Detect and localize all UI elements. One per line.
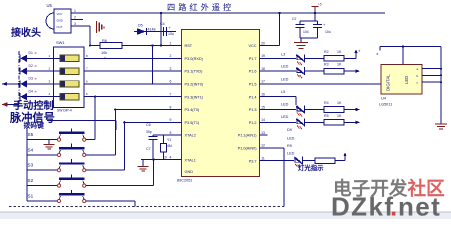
svg-text:+5: +5	[318, 3, 322, 7]
svg-text:3: 3	[74, 22, 76, 26]
svg-text:12: 12	[261, 144, 265, 148]
DIP switch SW1 body	[54, 47, 85, 108]
svg-text:P1.1(AIN1): P1.1(AIN1)	[238, 134, 258, 138]
svg-text:D2: D2	[29, 64, 33, 68]
svg-text:D3: D3	[29, 77, 33, 81]
svg-text:LED: LED	[281, 65, 289, 69]
IR receiver U5 body	[54, 9, 71, 33]
wire DIP row 1 to MCU	[84, 57, 182, 59]
IR wave marks	[96, 21, 98, 33]
svg-text:VCC: VCC	[248, 44, 256, 48]
svg-text:P1.7: P1.7	[249, 57, 257, 61]
svg-text:20: 20	[261, 41, 265, 45]
capacitor C3 10u	[317, 21, 319, 25]
wire caps bottom	[300, 37, 318, 39]
svg-text:16: 16	[261, 93, 265, 97]
svg-text:14: 14	[261, 118, 265, 122]
svg-text:18: 18	[261, 67, 265, 71]
switch S2	[27, 185, 57, 187]
svg-text:4: 4	[170, 156, 172, 160]
MCU left pin 9 P3.5(T1)	[174, 121, 182, 123]
wire cap feed	[314, 13, 316, 21]
switch S4	[27, 154, 57, 156]
receiver pin 2 wire	[71, 19, 83, 21]
svg-text:LED: LED	[287, 152, 295, 156]
svg-text:R2: R2	[324, 50, 329, 54]
power +5V symbol	[314, 7, 316, 14]
svg-text:17: 17	[261, 80, 265, 84]
svg-text:1: 1	[74, 9, 76, 13]
MCU right pin 16 P1.4	[260, 96, 268, 98]
svg-text:8: 8	[170, 105, 172, 109]
receiver pin 1 wire	[71, 12, 80, 14]
svg-text:P1.0(AIN0): P1.0(AIN0)	[238, 147, 258, 151]
DIP switch element 2	[60, 68, 79, 74]
wire display top pin	[402, 47, 404, 65]
svg-text:C6: C6	[146, 123, 151, 127]
display right pins	[422, 68, 441, 70]
svg-text:L3: L3	[281, 53, 285, 57]
wire INT0 branch	[152, 46, 154, 84]
LED D4	[19, 93, 21, 100]
LED D9 row	[268, 160, 295, 162]
svg-text:13: 13	[261, 131, 265, 135]
MCU left pin 3 P3.1(TXD)	[174, 70, 182, 72]
wire crystal gnd stub	[142, 160, 144, 166]
MCU left pin 8 P3.4(T0)	[174, 109, 182, 111]
svg-text:R3: R3	[324, 63, 329, 67]
wire VCC rail	[80, 12, 385, 14]
svg-text:P1.6: P1.6	[249, 70, 257, 74]
wire S5 to P3.3	[86, 139, 95, 141]
ground decoupling	[294, 42, 308, 44]
MCU right pin 17 P1.5	[260, 83, 268, 85]
svg-text:P3.7: P3.7	[249, 159, 257, 163]
wire pin16 stub	[268, 96, 297, 98]
svg-text:C2: C2	[292, 17, 296, 21]
svg-text:+: +	[358, 48, 361, 53]
svg-text:LED: LED	[281, 78, 289, 82]
capacitor C4 10u	[163, 27, 165, 36]
svg-text:P1.3: P1.3	[249, 108, 257, 112]
svg-text:GND: GND	[57, 19, 63, 23]
svg-text:P1.5: P1.5	[249, 83, 257, 87]
svg-text:D5: D5	[138, 24, 143, 28]
svg-text:OUT: OUT	[57, 25, 63, 29]
wire node A arrow left	[2, 83, 19, 85]
svg-text:10u: 10u	[325, 30, 331, 34]
svg-text:LG5011: LG5011	[379, 103, 392, 107]
svg-text:S3: S3	[28, 163, 34, 168]
resistor R6	[100, 43, 122, 49]
DIP switch element 1	[60, 55, 79, 61]
MCU left pin 1 RST	[174, 45, 182, 47]
svg-text:接收头: 接收头	[11, 26, 41, 39]
svg-text:7: 7	[170, 93, 172, 97]
7-seg display U4 body	[381, 65, 422, 95]
svg-text:S4: S4	[28, 147, 34, 152]
MCU right pin 13 P1.1(AIN1)	[260, 134, 268, 136]
wire VCC drop to reset	[160, 13, 162, 46]
MCU left pin 6 P3.2(INT0)	[174, 83, 182, 85]
svg-text:net: net	[398, 192, 441, 220]
svg-text:S5: S5	[28, 132, 34, 137]
svg-text:P3.3(INT1): P3.3(INT1)	[185, 95, 204, 99]
svg-text:Y1: Y1	[167, 138, 171, 142]
svg-text:1K: 1K	[337, 50, 342, 54]
svg-text:LED: LED	[281, 103, 289, 107]
wire LED bus exit	[7, 104, 19, 106]
crystal Y1	[163, 135, 165, 143]
receiver pin 3 wire	[71, 25, 90, 27]
svg-text:C4: C4	[160, 22, 165, 26]
svg-text:1K: 1K	[337, 114, 342, 118]
svg-text:四路红外遥控: 四路红外遥控	[167, 2, 234, 12]
svg-text:VCC: VCC	[57, 12, 63, 16]
capacitor C6	[152, 135, 154, 136]
svg-text:15: 15	[261, 105, 265, 109]
LED L3 row with resistor R2	[268, 57, 297, 59]
LED D2	[19, 68, 21, 75]
wire RST	[122, 45, 182, 47]
svg-text:SW DIP-4: SW DIP-4	[57, 109, 72, 113]
wire button top link	[47, 120, 116, 122]
switch S1	[27, 200, 57, 202]
svg-text:30p: 30p	[146, 130, 152, 134]
wire bottom dashed	[9, 206, 284, 208]
svg-text:P1.4: P1.4	[249, 95, 257, 99]
svg-text:.: .	[390, 192, 397, 220]
svg-text:P3.4(T0): P3.4(T0)	[185, 108, 201, 112]
svg-text:1K: 1K	[337, 63, 342, 67]
svg-text:P3.2(INT0): P3.2(INT0)	[185, 83, 204, 87]
wire reset row	[134, 31, 176, 33]
svg-text:4148: 4148	[148, 28, 156, 32]
svg-text:LED: LED	[281, 115, 289, 119]
svg-text:XTAL1: XTAL1	[185, 158, 196, 162]
MCU right pin 19 P1.7	[260, 57, 268, 59]
svg-text:R9: R9	[287, 144, 292, 148]
svg-text:DZkf: DZkf	[331, 192, 394, 220]
wire receiver output	[89, 26, 91, 46]
svg-text:D9: D9	[287, 128, 292, 132]
wire display top	[380, 46, 441, 48]
svg-text:C7: C7	[146, 147, 151, 151]
wire S3 to P3.5	[86, 169, 125, 171]
svg-text:3: 3	[170, 67, 172, 71]
bottom gray strip	[0, 213, 451, 220]
svg-text:S2: S2	[28, 178, 34, 183]
LED D1	[19, 55, 21, 62]
svg-text:10k: 10k	[101, 51, 107, 55]
svg-text:89C2051: 89C2051	[177, 179, 192, 183]
ground display	[435, 123, 447, 125]
ground crystal	[138, 166, 149, 168]
svg-text:1: 1	[170, 41, 172, 45]
svg-text:10u: 10u	[168, 32, 174, 36]
MCU right pin 20 VCC	[260, 45, 268, 47]
wire S2 to gnd net	[86, 185, 154, 187]
svg-text:R5: R5	[324, 114, 329, 118]
svg-text:11: 11	[261, 157, 265, 161]
svg-text:SW1: SW1	[56, 40, 65, 45]
wire VCC pin20 riser	[268, 45, 280, 47]
svg-text:104: 104	[303, 30, 309, 34]
MCU right pin 11 P3.7	[260, 160, 268, 162]
LED D3	[19, 80, 21, 87]
wire DIP row 4 to MCU	[84, 96, 182, 98]
svg-text:P3.0(RXD): P3.0(RXD)	[185, 57, 204, 61]
wire XTAL2 row	[153, 134, 182, 136]
MCU right pin 18 P1.6	[260, 70, 268, 72]
wire display bus	[440, 47, 442, 124]
svg-text:P3.1(TXD): P3.1(TXD)	[185, 70, 204, 74]
capacitor C2 104	[299, 21, 301, 25]
svg-text:2: 2	[170, 54, 172, 58]
LED cathode bus dash-dot	[18, 51, 20, 107]
svg-text:R4: R4	[324, 101, 329, 105]
svg-text:DIGITAL: DIGITAL	[386, 74, 391, 91]
svg-text:灯光指示: 灯光指示	[298, 163, 324, 172]
MCU left pin 7 P3.3(INT1)	[174, 96, 182, 98]
switch S3	[27, 169, 57, 171]
MCU left pin 4 XTAL1	[174, 159, 182, 161]
DIP switch element 4	[60, 94, 79, 100]
buttons bracket wire	[26, 128, 28, 201]
svg-text:D4: D4	[29, 90, 33, 94]
svg-text:D1: D1	[29, 51, 33, 55]
svg-text:LED: LED	[287, 137, 295, 141]
svg-text:RST: RST	[185, 44, 193, 48]
wire P1.5 to display	[268, 83, 382, 85]
svg-text:U5: U5	[47, 3, 53, 8]
svg-text:GND: GND	[185, 170, 194, 174]
switch S5	[27, 139, 57, 141]
wire XTAL1 GND row	[141, 159, 182, 161]
svg-text:P1.2: P1.2	[249, 121, 257, 125]
svg-text:L5: L5	[281, 90, 285, 94]
svg-text:U4: U4	[381, 97, 386, 101]
svg-text:手动控制: 手动控制	[13, 99, 54, 112]
wire to R6	[90, 45, 100, 47]
svg-text:4M: 4M	[167, 144, 172, 148]
svg-text:P3.5(T1): P3.5(T1)	[185, 121, 201, 125]
op-amp U1 MCU body	[182, 30, 260, 177]
svg-text:2: 2	[74, 16, 76, 20]
LED L5 row with resistor R4	[268, 109, 297, 111]
wire S1 right	[86, 200, 135, 202]
MCU right pin 14 P1.2	[260, 121, 268, 123]
LED L6 row with resistor R5	[268, 121, 297, 123]
svg-text:9: 9	[170, 118, 172, 122]
svg-text:XTAL2: XTAL2	[185, 134, 196, 138]
svg-text:S1: S1	[28, 194, 34, 199]
svg-text:6: 6	[170, 80, 172, 84]
DIP switch element 3	[60, 81, 79, 87]
LED L4 row with resistor R3	[268, 70, 297, 72]
MCU right pin 15 P1.3	[260, 109, 268, 111]
svg-text:LED: LED	[404, 76, 409, 84]
ground buttons	[48, 140, 50, 144]
wire S4 to P3.4	[86, 154, 116, 156]
MCU right pin 12 P1.0(AIN0)	[260, 147, 268, 149]
wire DIP row 2 to MCU	[84, 70, 182, 72]
svg-text:5: 5	[170, 131, 172, 135]
diode D5 1N4148	[137, 28, 146, 35]
svg-text:19: 19	[261, 54, 265, 58]
MCU left pin 2 P3.0(RXD)	[174, 57, 182, 59]
svg-text:R6: R6	[102, 39, 107, 43]
svg-text:d: d	[377, 52, 379, 56]
wire DIP row 3 to MCU	[84, 83, 182, 85]
svg-text:1K: 1K	[337, 101, 342, 105]
MCU left pin 5 XTAL2	[174, 134, 182, 136]
